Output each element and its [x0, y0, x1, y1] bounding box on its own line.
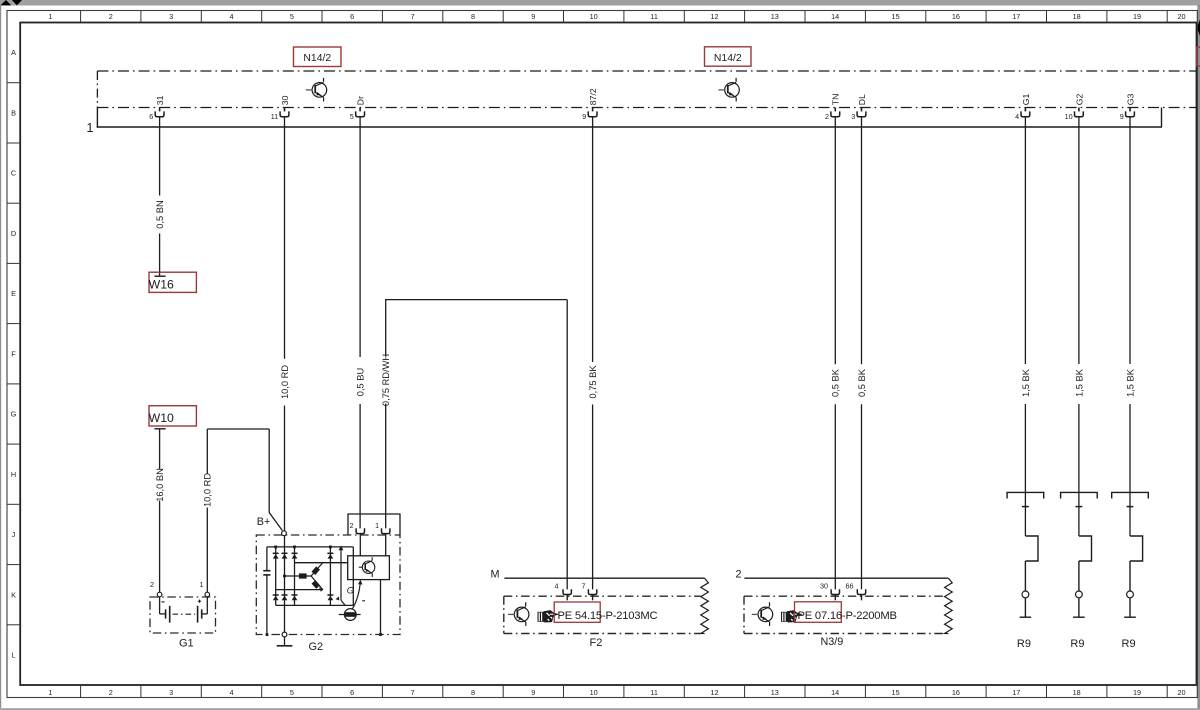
- svg-text:5: 5: [350, 112, 354, 121]
- transistor symbol inside regulator: [359, 557, 375, 577]
- component N14/2 dash-dot boundary top line: [97, 70, 1196, 72]
- wire 16,0 BN from W10 to G1 pin 2: [159, 429, 161, 593]
- svg-text:Dr: Dr: [356, 96, 366, 105]
- node G2 bottom pin circle: [282, 632, 287, 637]
- svg-text:N14/2: N14/2: [303, 53, 331, 64]
- svg-text:16: 16: [952, 688, 960, 697]
- svg-text:B: B: [11, 108, 16, 117]
- ground window W16 label box: [149, 272, 196, 292]
- svg-text:A: A: [11, 48, 16, 57]
- svg-text:15: 15: [892, 12, 900, 21]
- svg-text:1: 1: [87, 121, 94, 135]
- glow plug R9 #3 heater element: [1130, 536, 1143, 561]
- svg-text:PE 54.15-P-2103MC: PE 54.15-P-2103MC: [558, 610, 658, 622]
- wire connector pin2 to regulator: [359, 534, 361, 556]
- svg-text:13: 13: [771, 12, 779, 21]
- svg-text:14: 14: [831, 12, 839, 21]
- transistor symbol inside N14/2 (right): [718, 78, 739, 102]
- top ruler numbers: [48, 12, 1185, 21]
- wire riser left end of circuit 1: [96, 107, 98, 128]
- glow plug R9 #2 end tick: [1073, 616, 1085, 618]
- svg-text:R9: R9: [1122, 638, 1136, 650]
- svg-text:1,5 BK: 1,5 BK: [1125, 368, 1135, 397]
- svg-text:R9: R9: [1070, 638, 1084, 650]
- svg-text:L: L: [11, 651, 15, 660]
- right gray strip: [1197, 5, 1200, 710]
- terminal G3 pin 9 on N14/2: [1120, 93, 1136, 120]
- ground symbol below G2: [284, 637, 286, 646]
- glow plug R9 #1 end tick: [1020, 616, 1032, 618]
- pointing hand icon in N3/9: [781, 610, 803, 622]
- svg-text:1: 1: [48, 688, 52, 697]
- wire segment vertical to F2 pin 4: [566, 300, 568, 590]
- svg-text:W10: W10: [149, 411, 174, 425]
- svg-text:9: 9: [582, 112, 586, 121]
- right edge marker triangle: [1197, 20, 1200, 37]
- svg-text:20: 20: [1177, 12, 1185, 21]
- top ruler dividers: [81, 11, 1168, 23]
- svg-text:7: 7: [411, 12, 415, 21]
- wire segment horizontal link to F2: [385, 299, 567, 301]
- G2 stator windings: [276, 563, 348, 592]
- svg-text:16: 16: [952, 12, 960, 21]
- bottom ruler numbers: [48, 688, 1185, 697]
- svg-text:11: 11: [650, 12, 658, 21]
- svg-text:17: 17: [1012, 12, 1020, 21]
- svg-text:3: 3: [169, 688, 173, 697]
- svg-text:4: 4: [229, 688, 233, 697]
- svg-text:7: 7: [582, 581, 586, 590]
- top gray strip: [0, 0, 1200, 6]
- svg-text:0,5 BK: 0,5 BK: [857, 368, 867, 397]
- svg-text:20: 20: [1177, 688, 1185, 697]
- G2 brush wire curve to rotor: [352, 580, 365, 609]
- svg-text:10,0 RD: 10,0 RD: [280, 365, 290, 399]
- terminal G2 pin 10 on N14/2: [1065, 93, 1085, 120]
- node B+ circle: [282, 531, 287, 536]
- bottom ruler dividers: [81, 685, 1168, 698]
- svg-text:E: E: [11, 289, 16, 298]
- terminal tick at W16: [154, 275, 165, 277]
- terminal 30 pin 11 on N14/2: [271, 95, 290, 121]
- control unit N3/9 dash-dot outline: [744, 596, 945, 633]
- glow plug R9 #3 end tick: [1124, 616, 1136, 618]
- svg-text:2: 2: [150, 580, 154, 589]
- label box N14/2 (left): [294, 47, 342, 67]
- svg-text:17: 17: [1012, 688, 1020, 697]
- svg-text:16,0 BN: 16,0 BN: [155, 468, 165, 502]
- svg-text:10: 10: [590, 12, 598, 21]
- connector box on G2: [348, 514, 400, 535]
- svg-text:18: 18: [1073, 12, 1081, 21]
- wire segment B+ branch horizontal: [207, 428, 269, 430]
- svg-text:5: 5: [290, 688, 294, 697]
- svg-text:9: 9: [1120, 112, 1124, 121]
- transistor symbol inside N3/9: [752, 602, 773, 626]
- control unit N3/9 torn edge: [945, 578, 953, 633]
- svg-text:6: 6: [350, 688, 354, 697]
- G2 rectifier top rail: [267, 546, 353, 548]
- svg-text:11: 11: [271, 112, 278, 121]
- svg-text:10,0 RD: 10,0 RD: [203, 473, 213, 507]
- svg-text:TN: TN: [831, 94, 841, 106]
- svg-text:G3: G3: [1125, 93, 1135, 105]
- svg-text:DL: DL: [857, 94, 867, 105]
- component N14/2 dash-dot boundary bottom line: [97, 107, 1196, 109]
- top-left nav triangle up: [1, 0, 12, 5]
- top-left nav triangle down: [12, 0, 22, 5]
- svg-text:4: 4: [1015, 112, 1019, 121]
- G2 regulator ground leg: [380, 580, 382, 635]
- svg-text:7: 7: [411, 688, 415, 697]
- svg-text:1: 1: [200, 580, 204, 589]
- wire 1,5 BK to glow plug R9 #1: [1024, 117, 1026, 536]
- svg-text:K: K: [11, 590, 16, 599]
- G2 capacitor: [263, 547, 270, 636]
- svg-text:12: 12: [710, 12, 718, 21]
- svg-text:G2: G2: [309, 641, 324, 653]
- svg-text:C: C: [11, 169, 16, 178]
- svg-text:19: 19: [1133, 688, 1141, 697]
- fuse box F2 top bar: [504, 577, 704, 579]
- wire circuit bus 1: [97, 126, 1162, 128]
- svg-text:0,5 BU: 0,5 BU: [356, 368, 366, 396]
- svg-text:8: 8: [471, 12, 475, 21]
- svg-text:G2: G2: [1074, 93, 1084, 105]
- wire 0,75 RD/WH from junction to G2 connector pin 1: [385, 300, 387, 529]
- svg-text:13: 13: [771, 688, 779, 697]
- svg-text:1: 1: [48, 12, 52, 21]
- svg-text:10: 10: [590, 688, 598, 697]
- svg-text:11: 11: [650, 688, 658, 697]
- svg-text:4: 4: [555, 581, 559, 590]
- label box (clipped at right edge): [1197, 47, 1200, 66]
- control unit N3/9 top bar: [744, 577, 948, 579]
- svg-text:G1: G1: [179, 637, 194, 649]
- svg-text:1: 1: [375, 523, 379, 530]
- terminal DL pin 3 on N14/2: [851, 94, 867, 121]
- left letter row dividers: [7, 83, 20, 625]
- reference box PE 07.16 in N3/9: [795, 602, 842, 623]
- fuse box F2 dash-dot outline: [504, 596, 701, 633]
- svg-text:H: H: [11, 470, 16, 479]
- left letter row labels: [11, 48, 17, 659]
- svg-text:2: 2: [825, 112, 829, 121]
- svg-text:3: 3: [851, 112, 855, 121]
- svg-text:J: J: [12, 530, 16, 539]
- label box N14/2 (right): [705, 47, 752, 66]
- connector pin tick R9 #3: [1127, 506, 1134, 508]
- svg-text:W16: W16: [149, 278, 174, 292]
- glow plug R9 #3 body: [1129, 561, 1131, 591]
- terminal 87/2 pin 9 on N14/2: [582, 88, 598, 121]
- wire 0,5 BU from terminal Dr to G2 connector pin 2: [359, 117, 361, 529]
- wire 1,5 BK to glow plug R9 #2: [1078, 117, 1080, 536]
- G2 exciter line with arrow: [336, 546, 346, 606]
- svg-text:9: 9: [531, 12, 535, 21]
- svg-text:30: 30: [820, 581, 828, 590]
- svg-text:8: 8: [471, 688, 475, 697]
- svg-text:G1: G1: [1021, 93, 1031, 105]
- fuse box F2 torn edge: [701, 578, 709, 633]
- battery G1 internal symbol: [160, 597, 208, 623]
- svg-text:3: 3: [169, 12, 173, 21]
- ground window W10 label box: [149, 406, 196, 426]
- G2 rectifier verticals and diodes: [273, 546, 354, 606]
- svg-text:2: 2: [350, 523, 354, 530]
- terminal tick below W10: [154, 428, 165, 430]
- svg-text:19: 19: [1133, 12, 1141, 21]
- svg-text:R9: R9: [1017, 638, 1031, 650]
- wire 0,5 BN from terminal 31 to W16: [159, 117, 161, 276]
- wire 0,5 BK from terminal TN to N3/9 pin 30: [834, 117, 836, 590]
- svg-text:10: 10: [1065, 112, 1073, 121]
- svg-text:14: 14: [831, 688, 839, 697]
- wire riser right end of circuit 1: [1161, 108, 1163, 128]
- svg-text:87/2: 87/2: [588, 88, 598, 105]
- svg-text:2: 2: [109, 12, 113, 21]
- svg-text:66: 66: [846, 581, 854, 590]
- svg-text:6: 6: [149, 112, 153, 121]
- svg-text:0,75 BK: 0,75 BK: [588, 365, 598, 399]
- terminal Dr pin 5 on N14/2: [350, 96, 366, 121]
- wire B+ main vertical inside G2: [284, 536, 286, 633]
- glow plug R9 #2 heater element: [1079, 536, 1092, 561]
- terminal 31 pin 6 on N14/2: [149, 95, 165, 121]
- svg-text:2: 2: [109, 688, 113, 697]
- svg-text:1,5 BK: 1,5 BK: [1021, 368, 1031, 397]
- alternator G2 dash-dot box: [256, 535, 400, 635]
- svg-text:0,5 BN: 0,5 BN: [155, 200, 165, 228]
- G2 voltage regulator box: [348, 556, 390, 580]
- svg-text:F2: F2: [590, 637, 603, 649]
- svg-text:M: M: [491, 568, 500, 580]
- G2 rotor field winding: [339, 609, 361, 621]
- battery G1 pin 2 circle: [157, 592, 162, 597]
- wire 0,5 BK from terminal DL to N3/9 pin 66: [861, 117, 863, 590]
- wire 10,0 RD from branch to G1 pin 1: [206, 429, 208, 592]
- svg-text:D: D: [11, 229, 16, 238]
- wire connector pin1 to regulator: [385, 534, 387, 556]
- glow plug R9 #1 body: [1024, 561, 1026, 591]
- transistor symbol inside F2: [508, 602, 529, 626]
- svg-text:30: 30: [280, 95, 290, 105]
- svg-text:12: 12: [710, 688, 718, 697]
- reference box PE 54.15 in F2: [554, 602, 600, 622]
- svg-text:G: G: [347, 585, 354, 595]
- svg-text:4: 4: [229, 12, 233, 21]
- left page edge line: [0, 5, 1, 708]
- svg-text:9: 9: [531, 688, 535, 697]
- transistor symbol inside N14/2 (left): [306, 78, 327, 102]
- svg-text:N3/9: N3/9: [821, 636, 844, 648]
- connector housing above R9 #2: [1061, 492, 1098, 498]
- terminal TN pin 2 on N14/2: [825, 94, 841, 121]
- wire segment B+ branch vertical: [268, 429, 270, 513]
- bottom gray strip: [0, 708, 1200, 710]
- connector pin tick R9 #2: [1076, 506, 1083, 508]
- svg-text:B+: B+: [257, 516, 271, 528]
- pointing hand icon in F2: [538, 610, 560, 622]
- connector pin tick R9 #1: [1022, 506, 1029, 508]
- connector housing above R9 #1: [1007, 492, 1044, 498]
- svg-text:0,75 RD/WH: 0,75 RD/WH: [381, 354, 391, 406]
- glow plug R9 #1 heater element: [1025, 536, 1038, 561]
- svg-text:N14/2: N14/2: [714, 53, 742, 64]
- battery G1 dash-dot box: [150, 597, 216, 633]
- svg-text:2: 2: [736, 568, 742, 580]
- glow plug R9 #2 body: [1078, 561, 1080, 591]
- terminal G1 pin 4 on N14/2: [1015, 93, 1031, 120]
- svg-text:31: 31: [155, 95, 165, 105]
- wire 0,75 BK from terminal 87/2 to F2 pin 7: [592, 117, 594, 590]
- svg-text:0,5 BK: 0,5 BK: [831, 368, 841, 397]
- wire 10,0 RD from terminal 30 to B+ node: [284, 117, 286, 531]
- svg-text:1,5 BK: 1,5 BK: [1074, 368, 1084, 397]
- svg-text:F: F: [11, 349, 16, 358]
- component N14/2 dash-dot left edge: [96, 71, 98, 105]
- connector housing above R9 #3: [1112, 492, 1149, 498]
- wire segment B+ branch diagonal: [269, 513, 282, 531]
- svg-text:G: G: [11, 410, 17, 419]
- svg-text:5: 5: [290, 12, 294, 21]
- svg-text:PE 07.16-P-2200MB: PE 07.16-P-2200MB: [798, 610, 897, 622]
- wire 1,5 BK to glow plug R9 #3: [1129, 117, 1131, 536]
- svg-text:18: 18: [1073, 688, 1081, 697]
- svg-text:6: 6: [350, 12, 354, 21]
- svg-text:15: 15: [892, 688, 900, 697]
- battery G1 pin 1 circle: [205, 592, 210, 597]
